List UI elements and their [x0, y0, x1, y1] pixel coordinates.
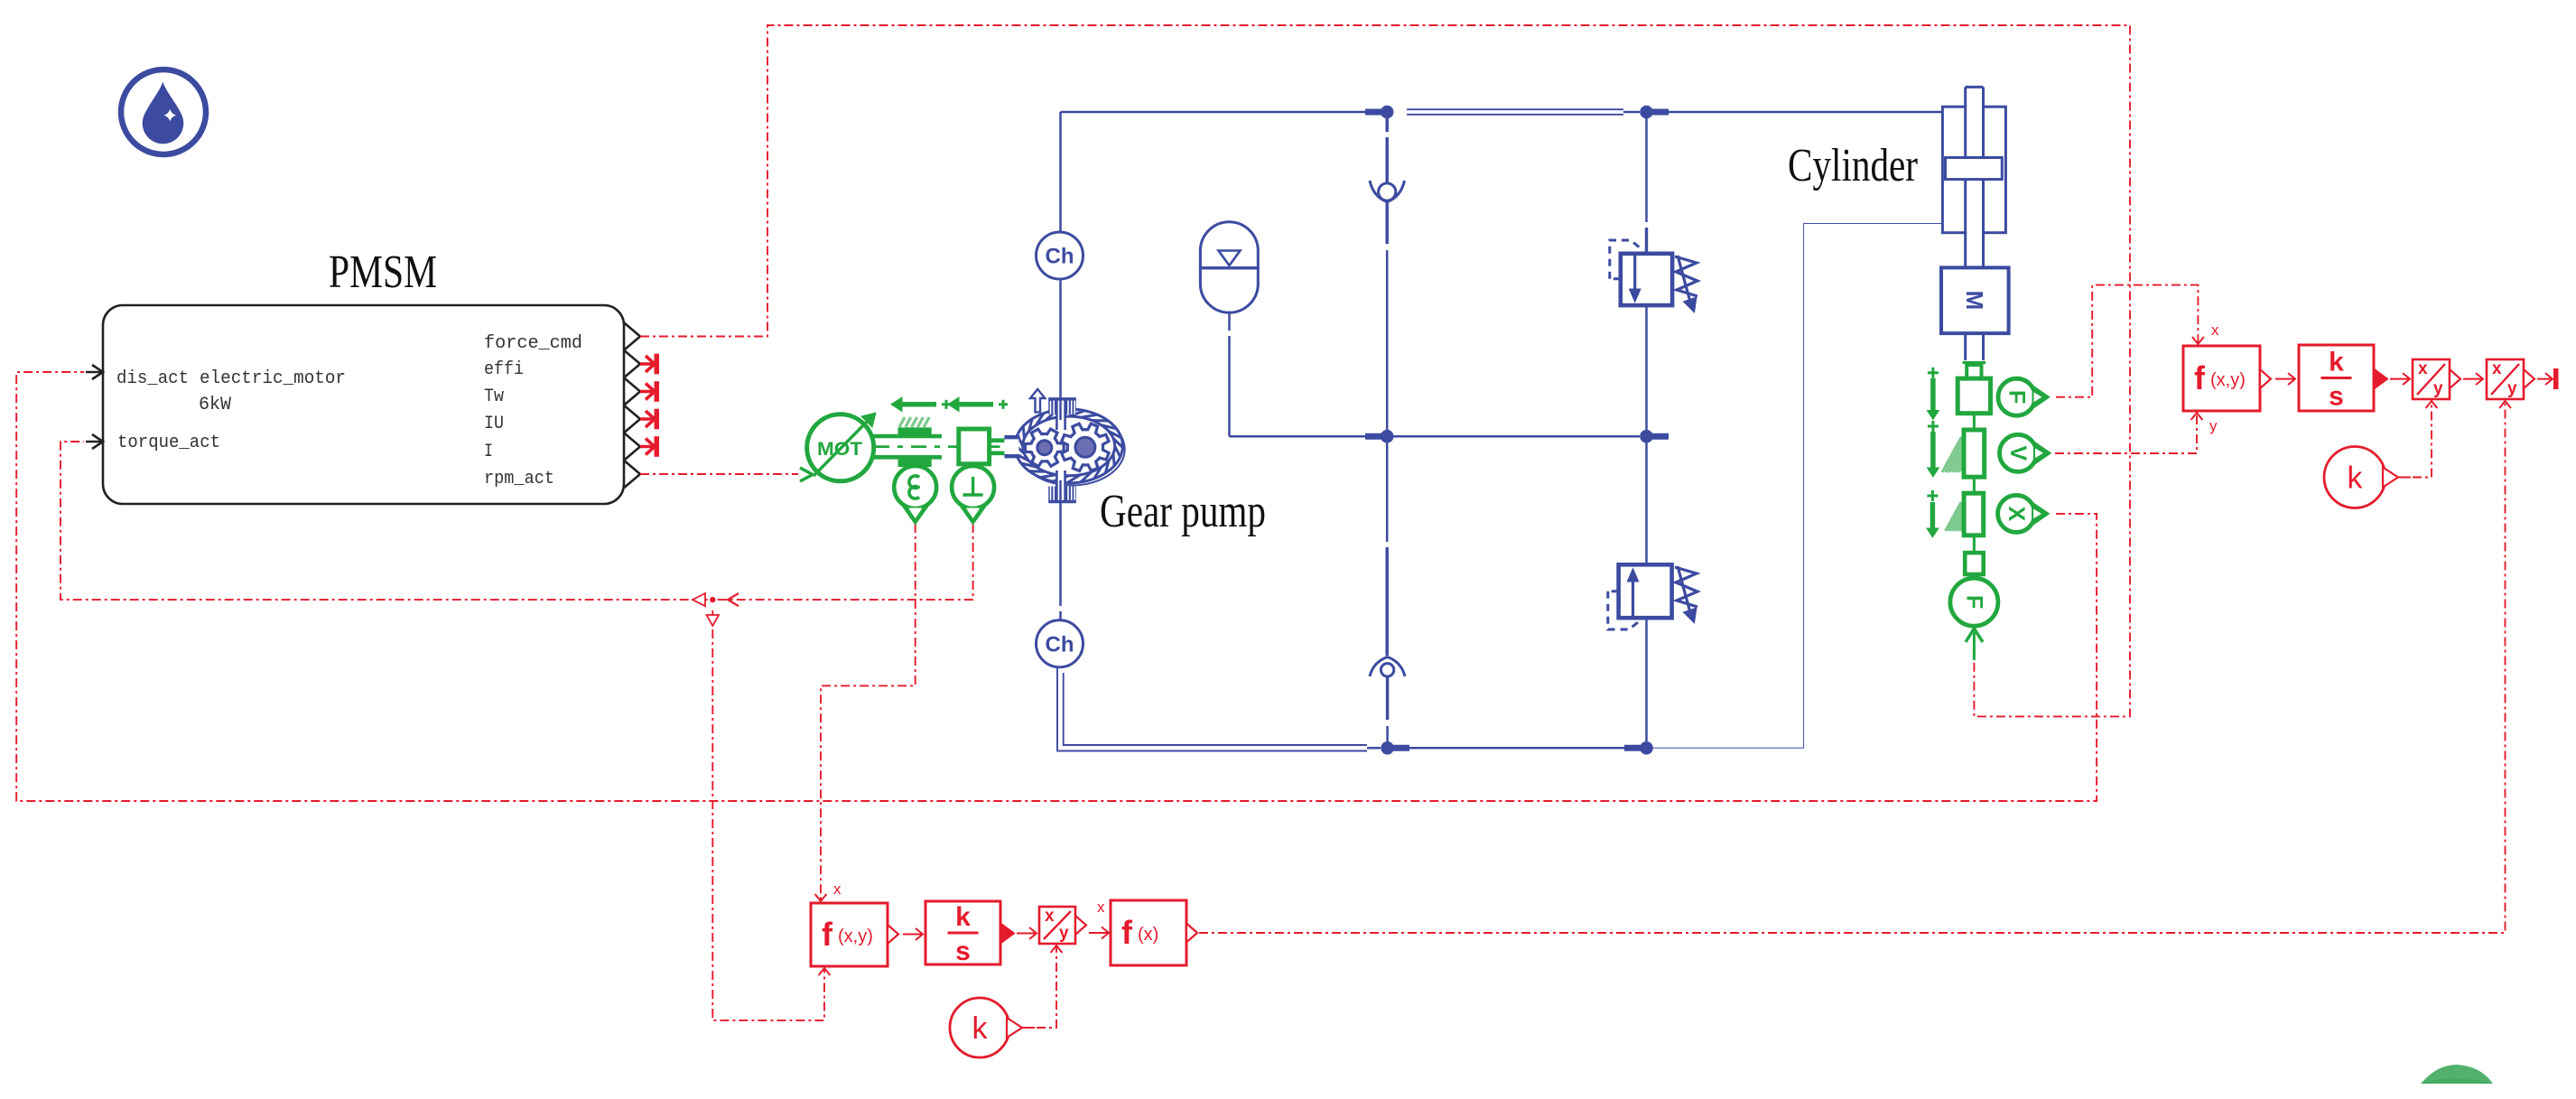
svg-text:force_cmd: force_cmd [484, 333, 582, 354]
gain k upper [2324, 447, 2385, 508]
pipe pump to top Ch node [1059, 279, 1062, 411]
svg-text:M: M [1961, 291, 1988, 311]
svg-text:f: f [1121, 914, 1133, 951]
svg-text:(x): (x) [1138, 925, 1158, 945]
gear pump left port [1004, 439, 1018, 454]
svg-text:(x,y): (x,y) [838, 927, 873, 946]
force source F [1950, 553, 1998, 660]
pipe bottom run to cylinder [1652, 224, 1942, 749]
PMSM output port chevrons [624, 322, 640, 488]
check valve branch lower [1386, 442, 1389, 542]
accumulator [1200, 222, 1258, 268]
force sensor F [1958, 363, 2050, 416]
x/y upper1 output [2450, 369, 2460, 388]
relief valve 1 body [1621, 254, 1672, 305]
svg-text:k: k [2348, 461, 2364, 496]
relief valve 1 internal arrow [1633, 255, 1636, 293]
wire F sensor to f(x,y)2 x input [2056, 285, 2198, 397]
svg-text:x: x [1045, 907, 1055, 926]
svg-text:F: F [2004, 390, 2030, 404]
svg-text:F: F [1961, 595, 1986, 609]
integrator k/s upper [2299, 345, 2374, 411]
gear pump direction arrow [1030, 389, 1045, 413]
flow arrow middle junction 1 [1365, 433, 1381, 440]
relief valve 2 setting arrow [1678, 566, 1691, 616]
motor shaft [873, 417, 1014, 467]
force source input arrow [1973, 632, 1976, 660]
svg-text:k: k [955, 902, 971, 932]
junction dot middle 1 [1381, 430, 1393, 442]
relief valve 1 setting arrow [1678, 256, 1691, 305]
gain k lower [950, 998, 1009, 1057]
cylinder body [1942, 87, 2005, 267]
gear pump big gear [1062, 424, 1109, 470]
svg-text:PMSM: PMSM [329, 247, 437, 298]
svg-text:x: x [1097, 899, 1105, 916]
wire V sensor to f(x,y)2 y input [2055, 414, 2197, 453]
svg-text:Cylinder: Cylinder [1788, 140, 1918, 191]
svg-text:s: s [2329, 382, 2344, 412]
f(x,y) lower output [888, 925, 898, 944]
gear pump bottom flange [1048, 487, 1056, 502]
svg-text:s: s [955, 936, 971, 966]
gear pump top flange [1048, 399, 1056, 414]
svg-text:Gear pump: Gear pump [1100, 486, 1266, 537]
svg-text:Tw: Tw [484, 387, 504, 407]
positive direction arrows [891, 397, 1008, 412]
mass block M [1941, 267, 2009, 333]
relief valve 1 pilot line [1610, 240, 1643, 279]
svg-text:effi: effi [484, 359, 524, 380]
svg-text:y: y [2433, 379, 2443, 398]
flow arrow middle junction 2 [1652, 433, 1669, 440]
pipe top run to cylinder [1669, 111, 1942, 114]
junction dot bottom 2 [1641, 742, 1653, 755]
svg-text:k: k [2329, 348, 2344, 377]
flow arrow bottom junction 1 [1393, 745, 1409, 751]
svg-text:x: x [2211, 321, 2219, 339]
speed sensor omega [894, 466, 936, 522]
wire torque sensor to junction to torque_act [60, 442, 973, 600]
node Ch bottom [1037, 620, 1083, 667]
k/s lower output [1000, 924, 1014, 944]
svg-text:IU: IU [484, 414, 504, 434]
PMSM input port arrow torque_act [86, 434, 103, 449]
svg-text:f: f [822, 916, 833, 953]
PMSM unconnected output arrows red [640, 354, 659, 457]
wire X sensor to dis_act feedback [16, 372, 2097, 801]
svg-text:rpm_act: rpm_act [484, 469, 554, 489]
decorative green hill [2421, 1065, 2493, 1084]
svg-text:Ch: Ch [1046, 245, 1074, 269]
hose double line top [1407, 108, 1623, 110]
flow arrow top junction 1 [1365, 109, 1381, 116]
relief valve 2 internal arrow [1632, 578, 1634, 616]
wire omega sensor to f(x,y) x input [821, 524, 916, 899]
position sensor X [1946, 493, 2050, 536]
junction dot top 1 [1381, 106, 1393, 118]
junction dot middle 2 [1641, 430, 1653, 442]
svg-text:y: y [1059, 924, 1069, 943]
link F to V [1973, 414, 1976, 430]
svg-text:x: x [2492, 359, 2502, 378]
logo water-drop badge [121, 70, 206, 154]
k/s upper output [2374, 369, 2387, 389]
velocity sensor V [1942, 430, 2051, 477]
pipe relief2 vertical [1645, 442, 1648, 564]
hose double line bottom with elbow [1057, 667, 1367, 751]
junction dot top 2 [1641, 106, 1653, 118]
cylinder rod [1967, 87, 1982, 267]
junction dot bottom 1 [1381, 742, 1394, 755]
motor signal input chevron [800, 468, 813, 481]
svg-text:V: V [2005, 445, 2031, 461]
wire rpm_act to motor input [640, 473, 798, 475]
cylinder piston [1946, 158, 2003, 180]
gear pump bottom pipe in slot [1059, 480, 1062, 502]
gear pump top pipe in slot [1059, 399, 1062, 420]
wire f(x) output to upper divider [1199, 403, 2506, 933]
node Ch top [1037, 232, 1083, 279]
plus arrow V sensor [1928, 425, 1939, 428]
check valve 2 ball and seat [1381, 664, 1393, 676]
pipe relief1 vertical [1645, 118, 1648, 222]
divider x/y lower [1039, 907, 1075, 944]
rod below mass [1964, 333, 1967, 360]
function block f(x,y) upper [2183, 346, 2260, 411]
flow arrow top junction 2 [1652, 109, 1669, 116]
f(x,y) upper output [2260, 369, 2271, 388]
function block f(x,y) lower [811, 903, 888, 966]
x/y upper2 output to terminator [2524, 369, 2534, 388]
svg-text:6kW: 6kW [199, 395, 231, 415]
svg-text:X: X [2004, 507, 2029, 522]
torque sensor [952, 466, 994, 522]
PMSM labels [116, 333, 582, 489]
svg-text:torque_act: torque_act [117, 433, 220, 453]
svg-text:y: y [2507, 379, 2517, 398]
svg-text:Ch: Ch [1046, 632, 1074, 657]
integrator k/s lower [925, 901, 1000, 964]
shaft bearing with hatch [899, 417, 929, 427]
pipe middle run [1230, 435, 1381, 438]
link X to force source [1973, 536, 1976, 553]
x/y lower output [1075, 916, 1086, 935]
signal junction with arrows [693, 593, 739, 626]
component PMSM supercomponent block [103, 247, 624, 504]
shaft coupling [959, 429, 990, 464]
svg-text:electric_motor: electric_motor [200, 368, 346, 389]
function block f(x) lower [1111, 900, 1186, 965]
relief valve 1 spring [1675, 256, 1697, 296]
gear pump casing [1004, 389, 1124, 502]
check valve 1 ball and seat [1379, 183, 1396, 200]
divider x/y upper 2 [2487, 359, 2524, 399]
electric motor MOT [800, 413, 876, 481]
relief valve 2 body [1619, 564, 1672, 618]
svg-text:I: I [484, 442, 493, 462]
svg-text:x: x [2418, 359, 2428, 378]
relief valve 2 spring [1675, 567, 1697, 607]
check valve branch upper [1385, 118, 1388, 132]
svg-text:f: f [2194, 359, 2206, 396]
wire gain k upper to divider input [2413, 403, 2432, 478]
plus arrow X sensor [1927, 495, 1938, 498]
PMSM input port arrow dis_act [86, 365, 103, 449]
f(x) output beak [1186, 924, 1197, 943]
pipe top run left segment [1061, 111, 1381, 114]
svg-text:k: k [972, 1011, 989, 1046]
link V to X [1973, 477, 1976, 493]
wire force_cmd to force source [640, 25, 2130, 716]
divider x/y upper 1 [2413, 359, 2450, 399]
pipe pump bottom to Ch bottom [1059, 496, 1062, 606]
relief valve 2 pilot line [1608, 591, 1641, 629]
svg-text:x: x [833, 880, 842, 898]
accumulator stem [1228, 312, 1231, 331]
wire gain k lower to divider input [1037, 947, 1056, 1028]
svg-text:dis_act: dis_act [116, 368, 189, 389]
plus arrow F sensor [1928, 371, 1939, 374]
flow arrow bottom junction 2 [1624, 745, 1641, 751]
wire junction down to f(x,y) y input [712, 610, 824, 1020]
gear pump small gear [1025, 429, 1064, 466]
svg-text:y: y [2209, 417, 2218, 434]
svg-text:(x,y): (x,y) [2210, 370, 2246, 390]
